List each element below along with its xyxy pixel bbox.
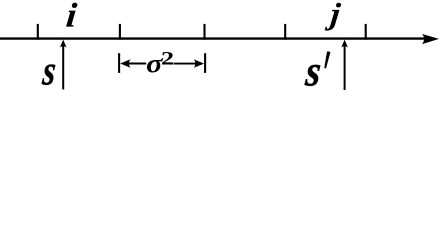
- svg-text:σ: σ: [146, 50, 163, 79]
- svg-text:i: i: [65, 0, 79, 34]
- svg-text:j: j: [324, 0, 342, 31]
- svg-text:s: s: [303, 46, 324, 94]
- svg-text:s: s: [40, 47, 58, 94]
- svg-text:2: 2: [161, 47, 174, 69]
